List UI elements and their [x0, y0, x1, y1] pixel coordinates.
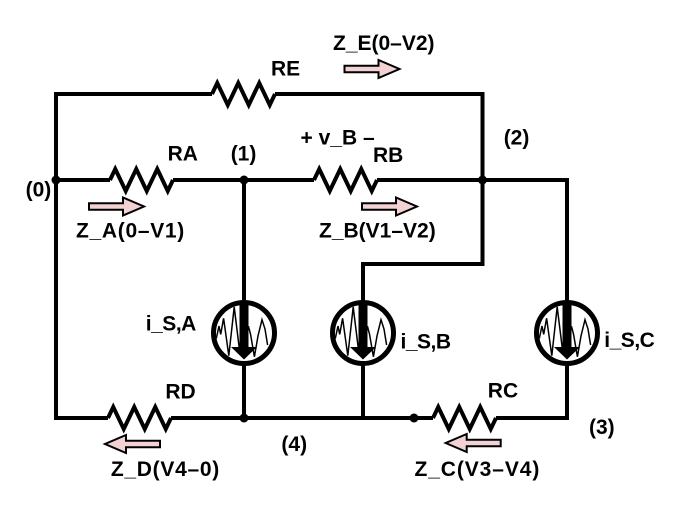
svg-text:i_S,C: i_S,C: [604, 329, 654, 352]
node 1 junction dot: [240, 176, 249, 185]
svg-text:(2): (2): [504, 126, 530, 149]
svg-text:RD: RD: [165, 381, 195, 404]
current arrow Z_A: [89, 198, 144, 216]
wire RB to right corner down to source C: [377, 180, 567, 301]
svg-text:Z_D(V4–0): Z_D(V4–0): [111, 458, 220, 481]
current source i_S,C: [537, 303, 598, 364]
wire source A to bottom: [242, 365, 246, 418]
wire node1 drop to source A: [242, 180, 246, 301]
current arrow Z_E: [345, 60, 400, 78]
current arrow Z_D (points left): [105, 435, 160, 453]
resistor RB: [314, 169, 377, 191]
node 2 junction dot: [478, 176, 487, 185]
svg-text:Z_A(0–V1): Z_A(0–V1): [76, 219, 185, 242]
resistor RA: [110, 169, 173, 191]
resistor RC: [433, 407, 496, 429]
node 0 junction dot: [52, 176, 61, 185]
svg-text:(4): (4): [281, 433, 307, 456]
svg-text:RB: RB: [373, 144, 403, 167]
svg-text:Z_B(V1–V2): Z_B(V1–V2): [319, 220, 436, 243]
svg-text:(0): (0): [26, 179, 52, 202]
resistor RE: [212, 83, 275, 105]
svg-text:Z_C(V3–V4): Z_C(V3–V4): [415, 458, 541, 481]
svg-text:Z_E(0–V2): Z_E(0–V2): [333, 32, 435, 55]
wire RA to RB: [173, 178, 314, 182]
current arrow Z_C (points left): [446, 434, 501, 452]
svg-text:i_S,A: i_S,A: [146, 312, 196, 335]
svg-text:(1): (1): [231, 143, 257, 166]
svg-text:RE: RE: [271, 58, 300, 81]
current source i_S,B: [333, 303, 394, 364]
wire source C to bottom corner: [565, 365, 569, 418]
svg-text:+ v_B –: + v_B –: [301, 127, 375, 150]
svg-text:(3): (3): [589, 416, 615, 439]
current source i_S,A: [214, 303, 275, 364]
wire node0 to RA: [56, 178, 110, 182]
svg-text:RC: RC: [488, 380, 518, 403]
current arrow Z_B: [362, 198, 417, 216]
junction dot left of RC: [410, 414, 419, 423]
wire top-right to node2 drop and step to source B: [275, 94, 483, 301]
wire RC to bottom-right corner: [496, 365, 567, 418]
svg-text:RA: RA: [168, 143, 198, 166]
node 4 junction dot (source A bottom): [240, 414, 249, 423]
wire source B to bottom: [361, 365, 365, 418]
wire left+top+bottom run: [56, 94, 212, 418]
svg-text:i_S,B: i_S,B: [401, 331, 451, 354]
wire RD to RC: [171, 416, 433, 420]
resistor RD: [108, 407, 171, 429]
